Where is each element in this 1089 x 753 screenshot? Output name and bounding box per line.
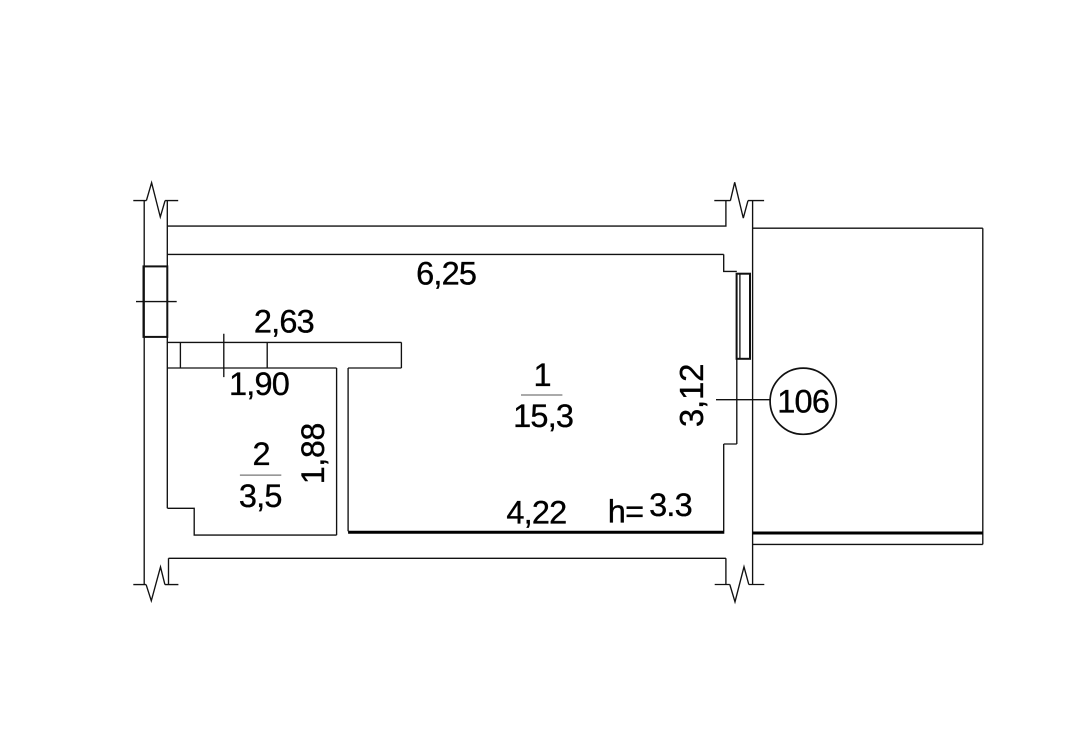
svg-text:3.3: 3.3 (649, 487, 692, 523)
svg-text:15,3: 15,3 (513, 398, 573, 434)
svg-text:4,22: 4,22 (506, 495, 566, 531)
svg-text:6,25: 6,25 (416, 255, 476, 291)
svg-text:1: 1 (533, 357, 550, 393)
svg-text:3,12: 3,12 (673, 364, 710, 427)
svg-text:106: 106 (777, 383, 829, 419)
svg-text:2: 2 (253, 436, 270, 472)
svg-text:1,88: 1,88 (295, 423, 331, 484)
svg-text:1,90: 1,90 (229, 366, 289, 402)
svg-text:3,5: 3,5 (239, 478, 282, 514)
svg-text:h=: h= (608, 494, 643, 530)
svg-text:2,63: 2,63 (254, 304, 314, 340)
